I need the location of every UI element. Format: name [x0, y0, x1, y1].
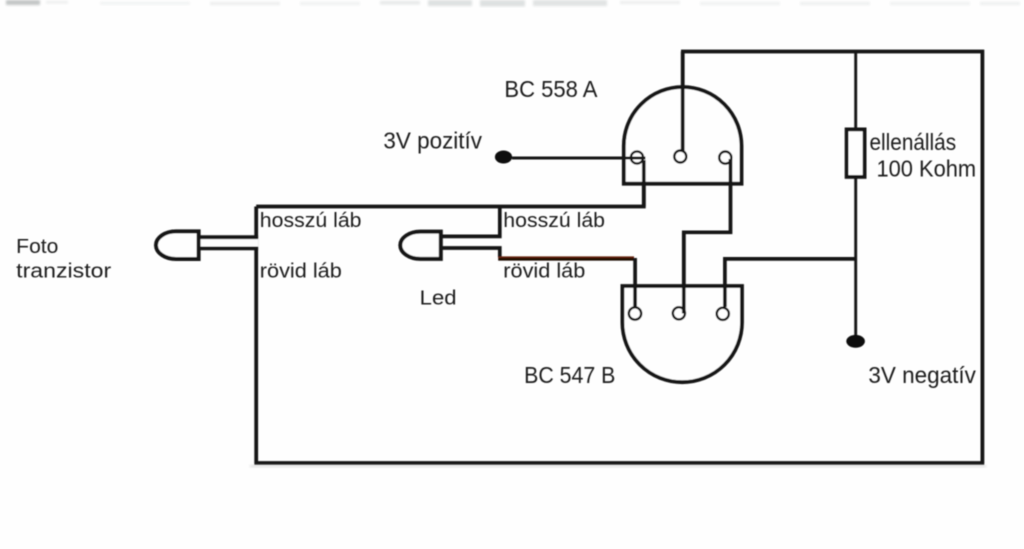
svg-text:hosszú láb: hosszú láb: [503, 209, 605, 232]
svg-text:ellenállás: ellenállás: [870, 129, 957, 155]
svg-text:3V pozitív: 3V pozitív: [383, 128, 482, 154]
svg-text:Foto: Foto: [16, 235, 58, 258]
svg-text:Led: Led: [420, 287, 457, 310]
svg-text:100 Kohm: 100 Kohm: [877, 155, 977, 181]
svg-text:BC 547 B: BC 547 B: [524, 362, 615, 388]
svg-text:BC 558 A: BC 558 A: [504, 76, 597, 102]
svg-text:rövid láb: rövid láb: [503, 260, 585, 283]
svg-text:rövid láb: rövid láb: [260, 260, 342, 283]
svg-text:tranzistor: tranzistor: [16, 260, 111, 283]
svg-text:hosszú láb: hosszú láb: [260, 209, 362, 232]
svg-text:3V negatív: 3V negatív: [868, 362, 976, 388]
